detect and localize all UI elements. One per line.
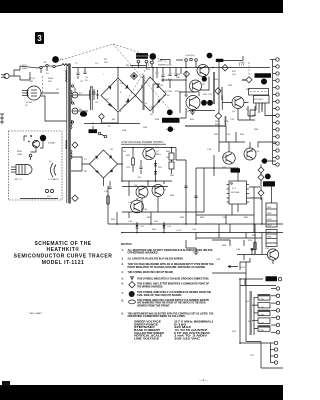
dashed linkage tent	[58, 44, 168, 62]
transistor Q11	[222, 152, 235, 169]
lv bottom diodes	[136, 222, 172, 232]
wire from sweep blob right	[224, 56, 244, 60]
right terminal strip upper	[270, 58, 279, 124]
wires from transformer to LV bridge	[71, 157, 90, 171]
diamond below blob rect right	[258, 190, 264, 196]
note 6 diamond marker	[122, 282, 210, 289]
svg-text:7.: 7.	[122, 292, 124, 295]
svg-text:LINE VOLTAGE: LINE VOLTAGE	[134, 337, 159, 340]
wire bus left-center	[84, 123, 140, 125]
dashed linkage cross B	[120, 57, 153, 112]
note 4	[122, 271, 174, 274]
blob rect IT-1121	[263, 181, 275, 186]
blob circle above Q2	[202, 76, 207, 81]
wire crt box top left	[24, 136, 27, 141]
connector box with dashed top	[249, 89, 269, 96]
dashed linkage cross A	[113, 44, 172, 112]
blob circle vert pos	[167, 109, 173, 115]
extra LV mesh	[172, 148, 209, 225]
winding taps	[71, 85, 76, 123]
terminal circles col low	[240, 341, 278, 364]
long top rail wire	[72, 67, 270, 69]
neon lamp PS1	[45, 189, 48, 192]
wire Q1 to Q2	[200, 77, 209, 91]
LOW VOLTAGE POWER SUPPLY title	[121, 140, 166, 144]
wire ic input	[209, 155, 214, 176]
svg-text:47K: 47K	[48, 81, 52, 83]
28V text	[215, 121, 229, 126]
blob circle right	[265, 174, 271, 180]
blob rect small	[216, 59, 224, 62]
lug circle	[278, 278, 281, 281]
blob circle below hor label	[261, 79, 267, 85]
extra wires upper mid	[160, 60, 183, 65]
bottom-left tab	[2, 381, 10, 385]
vertical feed wire x219	[218, 62, 220, 132]
svg-text:LOW VOLTAGE POWER SUPPLY: LOW VOLTAGE POWER SUPPLY	[121, 140, 164, 144]
extra S1 contact detail	[41, 67, 47, 73]
cap at bridge lv	[104, 181, 112, 193]
svg-text:ALL CAPACITOR VALUES ARE IN uF: ALL CAPACITOR VALUES ARE IN uF UNLESS MA…	[128, 257, 184, 260]
extra bottom rail right	[196, 233, 262, 239]
specs table	[134, 321, 213, 341]
svg-text:3-2A: 3-2A	[259, 329, 264, 332]
blob rect vert gain label	[162, 118, 180, 123]
svg-text:POINT INDICATED TO CHASSIS GRO: POINT INDICATED TO CHASSIS GROUND. SWITC…	[128, 266, 206, 269]
extra LV bottom drops	[111, 212, 159, 224]
svg-text:L2 TRACE: L2 TRACE	[48, 178, 59, 181]
LV rails	[104, 148, 177, 187]
transistor Q10	[128, 200, 148, 213]
svg-text:OTHERWISE MARKED.: OTHERWISE MARKED.	[128, 252, 159, 255]
gray bar mid	[213, 72, 215, 104]
svg-text:3: 3	[37, 34, 42, 43]
blob oval label	[80, 111, 87, 117]
CRT tube symbol	[11, 164, 32, 181]
left edge ticks	[0, 114, 4, 124]
q13 bias parts	[212, 240, 273, 273]
transformer T1 core	[66, 64, 72, 204]
note 2	[122, 257, 184, 260]
switch contact	[145, 60, 148, 63]
label blob 150 (power switch)	[52, 56, 59, 63]
svg-text:R106: R106	[48, 78, 54, 80]
svg-text:S2A: S2A	[122, 129, 127, 132]
wires center mesh	[153, 68, 186, 114]
CRT dashed enclosure box	[9, 131, 63, 200]
wires transformer right to bridge	[78, 94, 90, 96]
wires around Q5	[222, 95, 255, 120]
junction dot bus	[92, 123, 93, 124]
svg-text:S2B: S2B	[143, 127, 148, 129]
wire y111	[189, 110, 215, 112]
vertical bus terminals	[272, 60, 274, 125]
svg-text:THIS SYMBOL INDICATES A CHASSI: THIS SYMBOL INDICATES A CHASSIS GROUND C…	[137, 277, 209, 280]
wire terminal bracket low	[246, 342, 283, 369]
extra bottom mid wires	[186, 233, 230, 249]
svg-text:THE WIRING HARNESS.: THE WIRING HARNESS.	[137, 285, 163, 288]
rail junction dots	[117, 67, 214, 69]
svg-text:+12V: +12V	[176, 230, 182, 232]
lv mesh wires	[122, 181, 172, 212]
vert amp label blob (2 line)	[136, 53, 148, 59]
resistor ladder box upper	[266, 203, 277, 227]
title block	[14, 241, 113, 266]
wire bridge top to rail	[117, 68, 119, 78]
ground symbols bottom	[194, 248, 199, 255]
switch wafer gray bar	[250, 291, 252, 335]
resistor boxes right of LV	[169, 148, 174, 175]
svg-text:FOIL SIDE OF THE CIRCUIT BOARD: FOIL SIDE OF THE CIRCUIT BOARD.	[137, 294, 182, 297]
svg-text:1.: 1.	[122, 249, 124, 252]
top black band	[0, 0, 283, 13]
svg-text:2-2A: 2-2A	[259, 314, 264, 317]
deflection yoke arc	[48, 161, 59, 181]
note 3	[122, 263, 214, 269]
switch S1 contacts	[36, 62, 55, 69]
fuse resistor	[62, 64, 70, 66]
small switch circle below label	[137, 60, 140, 63]
resistor on left lv drop	[107, 196, 109, 204]
diamond sym left lower	[72, 195, 78, 201]
transistor Q9	[152, 185, 167, 197]
junction dot	[185, 79, 186, 80]
T-101 blob label	[89, 129, 98, 133]
wire tube to transformer	[41, 92, 59, 94]
svg-text:2-2B: 2-2B	[259, 322, 264, 324]
gray heavy trace hor label	[242, 79, 246, 81]
extra ic bottom wires	[196, 204, 254, 224]
ground symbol q3	[190, 109, 195, 115]
extra mesh right mid	[226, 103, 262, 142]
cathode drop wire	[41, 96, 67, 121]
svg-text:5.: 5.	[122, 277, 124, 280]
hor amp label blob	[255, 73, 272, 78]
bottom black band	[0, 385, 283, 400]
shielded gray cable vertical	[143, 75, 145, 110]
bottom right connecting wires	[240, 258, 276, 343]
svg-text:4.: 4.	[122, 271, 124, 274]
svg-text:— 6 —: — 6 —	[199, 378, 208, 382]
diamond mid right	[215, 88, 221, 94]
tube socket pins row	[185, 58, 198, 67]
svg-text:OPERATING CONDITIONS WERE AS F: OPERATING CONDITIONS WERE AS FOLLOWS:	[128, 315, 186, 318]
dashed stub	[42, 76, 44, 95]
transistor X1 in crt box	[28, 135, 56, 148]
ground diamond H	[258, 174, 264, 180]
svg-text:1-2B: 1-2B	[259, 307, 264, 309]
blob circle (sweep sw)	[207, 53, 213, 59]
svg-text:CRT V1: CRT V1	[14, 179, 22, 181]
diamond near hor label	[246, 77, 252, 83]
reg label blob	[231, 168, 241, 172]
svg-text:C9 .05: C9 .05	[163, 95, 170, 97]
blob circle mid right	[262, 158, 267, 163]
wafer boxes	[258, 295, 270, 333]
ic wires	[214, 168, 262, 233]
wire lower mid drop	[219, 224, 230, 238]
transistor Q7 regulator	[143, 147, 161, 159]
svg-text:MC1466: MC1466	[231, 192, 240, 194]
blob circle right of label	[150, 53, 157, 60]
transistor Q3	[186, 96, 200, 114]
pilot arrow	[228, 265, 247, 269]
filter caps C5 C6	[90, 87, 99, 104]
blob label bottom right	[266, 276, 278, 281]
svg-text:MODEL IT-1121: MODEL IT-1121	[42, 260, 85, 266]
scattered ref designators	[46, 59, 259, 357]
pot P2 on transformer	[72, 108, 83, 114]
pot P1 on transformer	[72, 88, 83, 98]
bridge rectifier D1-D4	[101, 78, 136, 112]
diamond lower right	[215, 113, 221, 119]
blob pair (cal controls)	[201, 100, 213, 106]
wire pot R2 to bridge	[78, 110, 88, 112]
svg-text:105-125 VAC: 105-125 VAC	[174, 337, 200, 340]
svg-text:HEATHKIT®: HEATHKIT®	[46, 246, 79, 253]
svg-text:100K: 100K	[17, 154, 23, 156]
switch contact	[151, 61, 154, 64]
svg-text:(7): (7)	[239, 61, 245, 66]
wire intensity blob to transistor	[40, 141, 43, 148]
note 1	[122, 249, 213, 255]
ground symbol center	[166, 126, 175, 132]
figure tag 3	[35, 32, 44, 44]
transistor Q12	[244, 148, 260, 160]
bridge 2 (overlapping right)	[136, 77, 167, 111]
zener stack	[154, 160, 163, 182]
caps LV	[185, 180, 198, 198]
connector box P201 with pins	[254, 96, 270, 107]
resistor ladder box lower	[266, 230, 277, 247]
gray bar mid2	[221, 87, 223, 100]
dashed stub right top	[248, 62, 250, 76]
svg-text:R201: R201	[17, 151, 23, 153]
diamond stack right	[258, 167, 264, 173]
svg-text:R14 2.2K: R14 2.2K	[163, 91, 173, 93]
note 5 ground marker	[122, 277, 210, 281]
contact circle	[29, 154, 32, 157]
svg-text:3.: 3.	[122, 263, 124, 266]
svg-text:SWEEP (LIN): SWEEP (LIN)	[158, 64, 172, 66]
svg-text:60Hz: 60Hz	[22, 68, 27, 70]
cap row LV	[137, 160, 143, 179]
svg-text:6.: 6.	[122, 283, 124, 286]
svg-text:2.: 2.	[122, 257, 124, 260]
svg-text:+150: +150	[157, 61, 163, 63]
svg-text:6CW5: 6CW5	[26, 102, 33, 104]
cap row under rail	[160, 68, 173, 88]
ground diamond below bridge	[99, 114, 105, 120]
wires from label down	[130, 60, 153, 68]
transistor Q5 right	[232, 97, 244, 114]
note 7 dark circle marker	[122, 291, 212, 297]
neon lamp PS1 b	[50, 189, 53, 192]
svg-text:VIEWED FROM THE FRONT.: VIEWED FROM THE FRONT.	[137, 304, 170, 307]
texts upper mid	[56, 59, 213, 129]
svg-text:1-2A: 1-2A	[259, 298, 264, 301]
box bottom hatch	[20, 198, 58, 200]
switch contacts right of T-101	[93, 124, 107, 138]
hanging caps from rail left	[77, 68, 87, 84]
svg-text:+150 (B+): +150 (B+)	[185, 55, 195, 57]
transistor Q2	[190, 80, 206, 92]
diamond below left of Q1	[184, 71, 190, 77]
gray heavy trace right	[185, 116, 226, 126]
terminal circles col mid	[271, 287, 280, 334]
blob label (intensity)	[40, 135, 46, 141]
IC-1 box	[227, 181, 250, 204]
svg-text:ON: ON	[43, 62, 47, 64]
wire bridge bottom	[102, 112, 119, 123]
diamond right of Q1	[222, 65, 228, 71]
svg-text:REG: REG	[156, 154, 161, 156]
bottom-right transistor Q13 circuit	[265, 248, 279, 260]
wire right column drop	[255, 224, 262, 254]
extra top rail tick caps	[156, 68, 182, 79]
connector pin drop wires	[250, 106, 276, 120]
wire top right mesh	[219, 132, 276, 152]
wires wafer connections	[252, 297, 258, 335]
junction dots center	[179, 91, 180, 92]
svg-text:6.3VAC: 6.3VAC	[48, 142, 56, 145]
terminal circles col extension	[273, 124, 280, 166]
wire Q2 emitter mesh	[180, 92, 199, 118]
svg-text:NOTES:: NOTES:	[121, 242, 132, 246]
small comp text rows center	[163, 91, 180, 97]
transformer T2 core bars	[89, 86, 92, 110]
wire hv to bottom	[245, 262, 247, 342]
lv bottom rails	[108, 186, 283, 233]
LV bridge rectifier	[84, 149, 118, 178]
note 8 oval marker	[122, 299, 210, 308]
svg-text:THIS SYMBOL INDICATES CIRCUIT: THIS SYMBOL INDICATES CIRCUIT BOARD.	[128, 271, 174, 274]
note 9	[122, 312, 214, 318]
black diamond indicator	[131, 73, 138, 80]
tube V2 6CW5	[22, 86, 41, 107]
svg-text:15K: 15K	[104, 62, 108, 64]
wire into transformer	[67, 64, 68, 66]
line plug	[1, 66, 36, 80]
junction dots rails	[116, 147, 263, 344]
transistor Q1 top	[197, 65, 212, 77]
LV mid rail	[122, 186, 168, 188]
resistor under Q7	[126, 148, 134, 173]
svg-text:SEMICONDUCTOR CURVE TRACER: SEMICONDUCTOR CURVE TRACER	[14, 254, 113, 260]
wires inside crt box	[31, 148, 37, 160]
transistor Q8	[134, 185, 148, 198]
svg-text:8.: 8.	[122, 300, 124, 303]
diamond sym left upper	[72, 142, 78, 148]
svg-text:9.: 9.	[122, 312, 124, 315]
wires right column	[261, 161, 276, 203]
wire	[55, 65, 62, 67]
svg-text:* SEE CHART: * SEE CHART	[28, 312, 43, 315]
svg-text:SOCKET: SOCKET	[254, 99, 264, 101]
